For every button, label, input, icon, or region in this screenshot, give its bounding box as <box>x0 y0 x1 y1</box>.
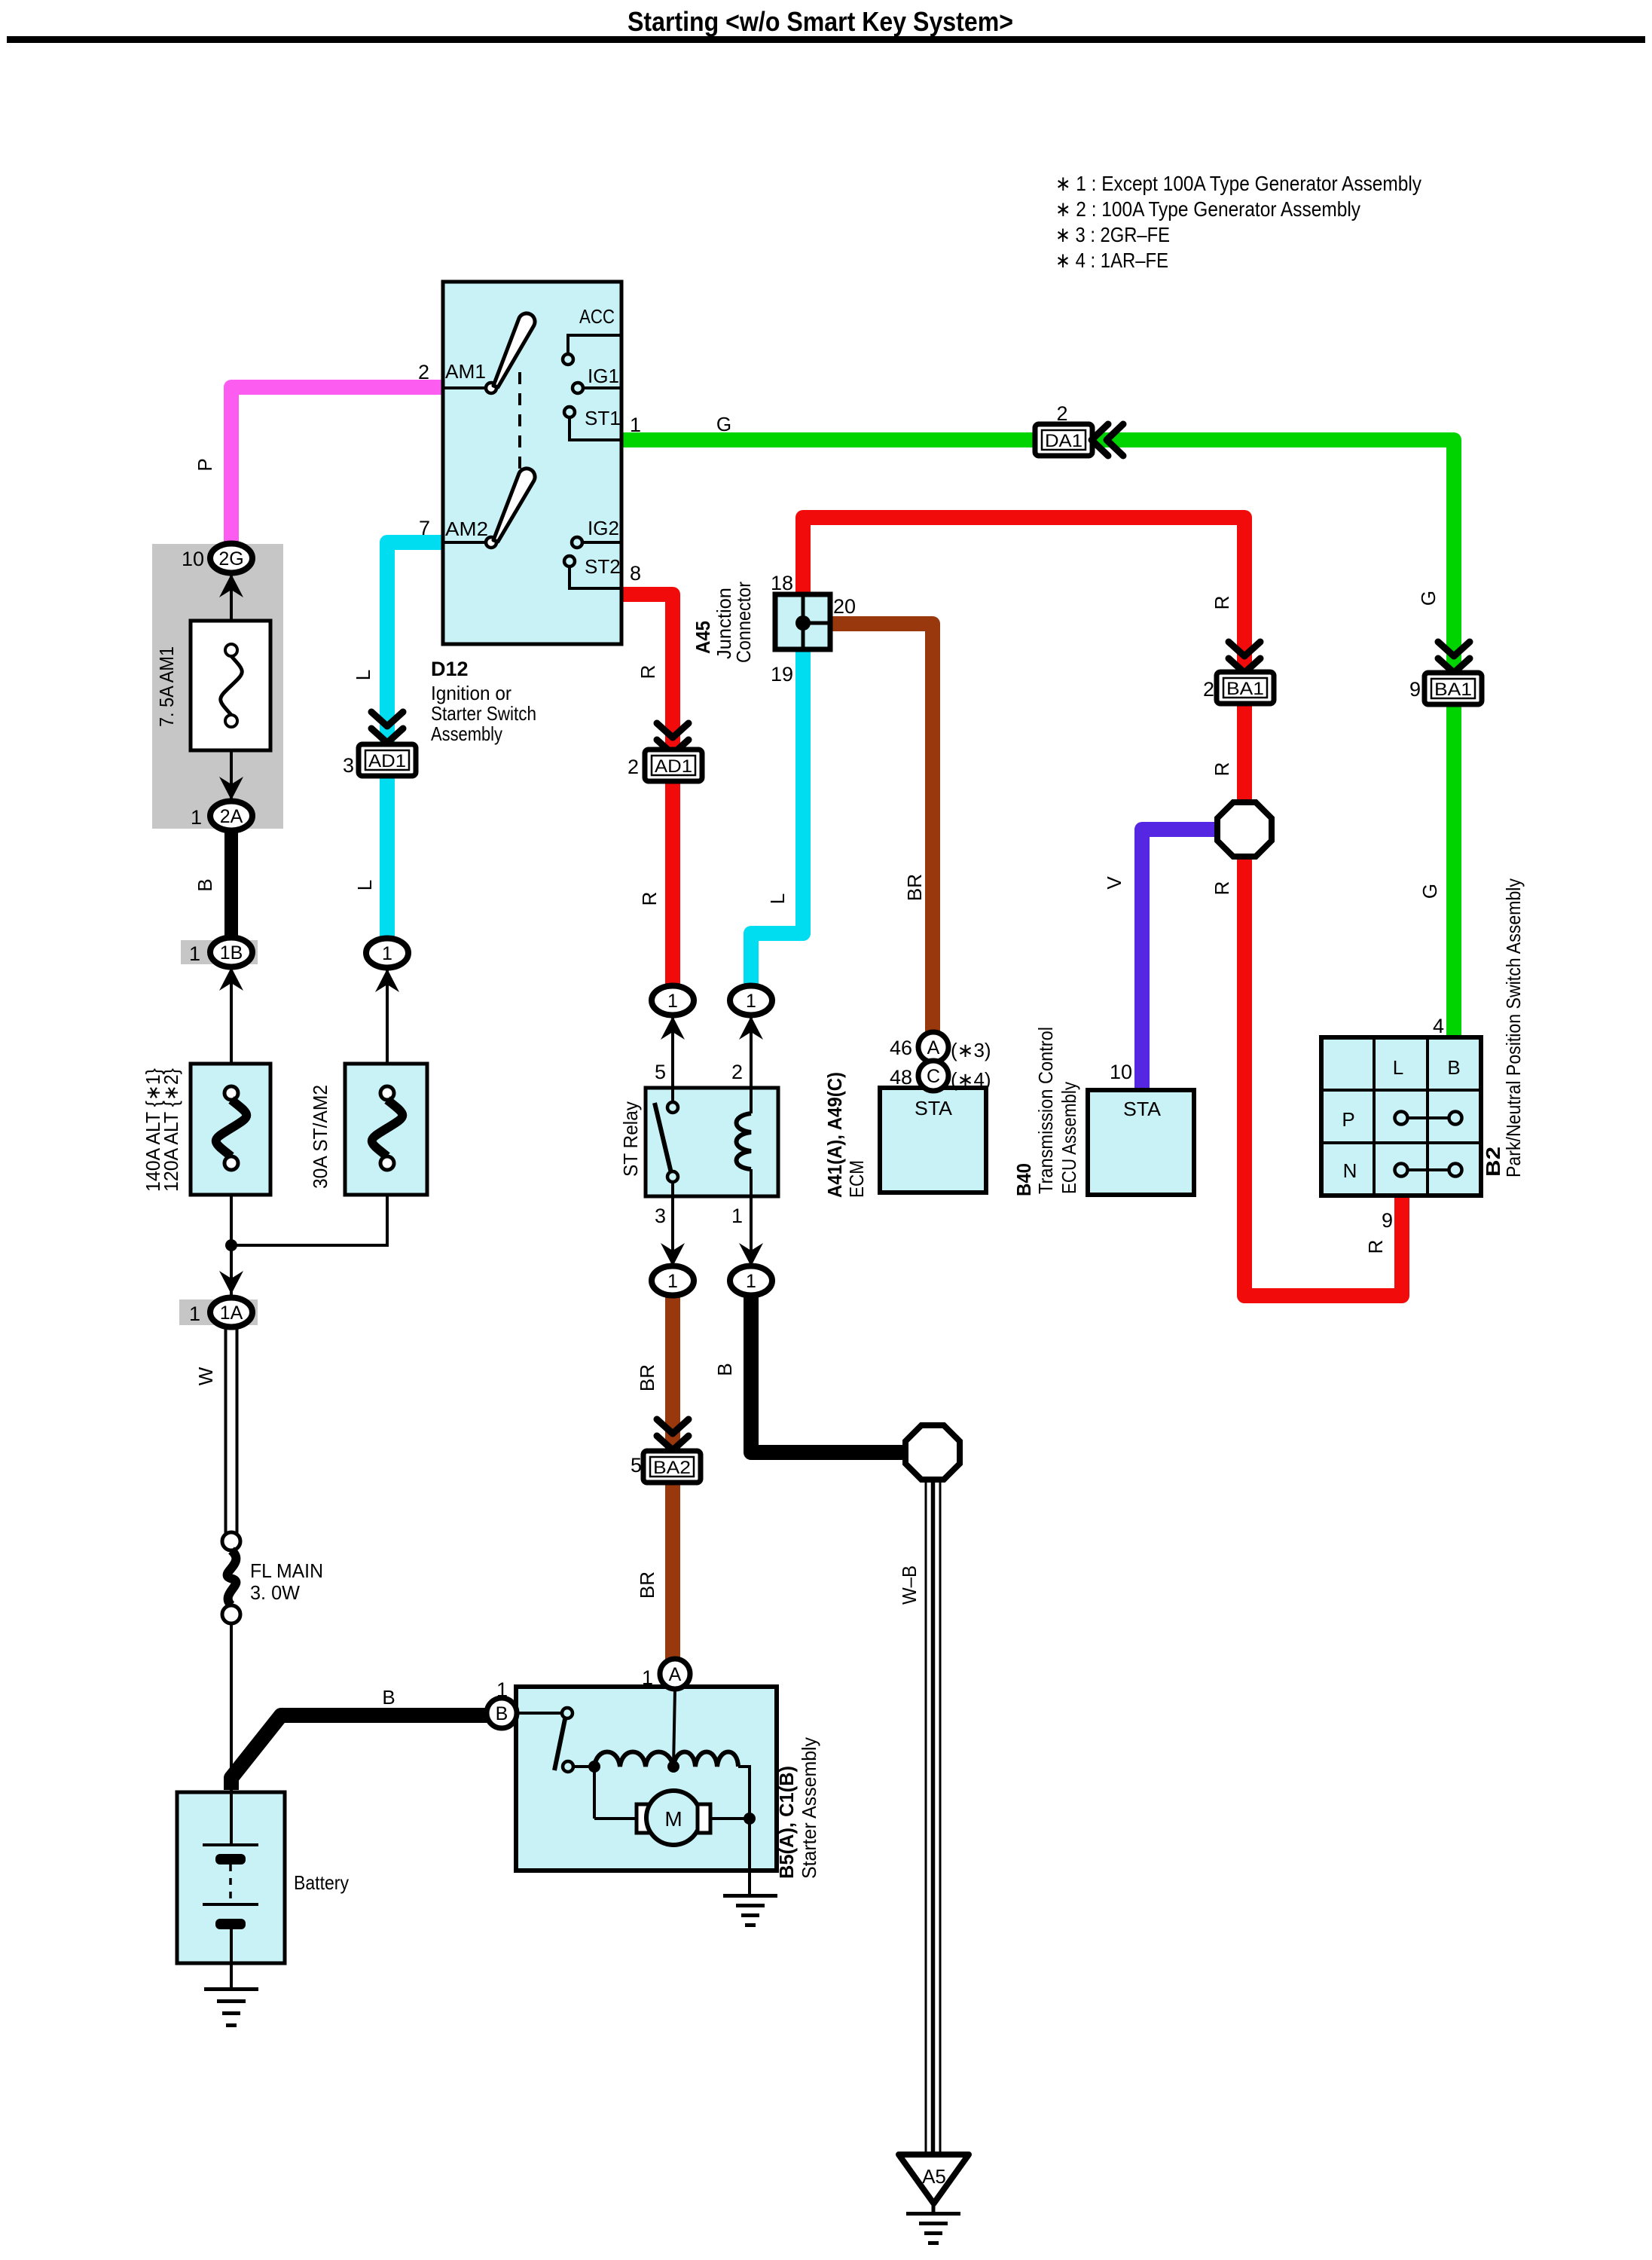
svg-text:18: 18 <box>771 572 793 594</box>
octagon splice lower <box>905 1425 960 1480</box>
connector AD1 pin2 <box>628 750 702 781</box>
D12 terminal labels <box>445 305 621 578</box>
svg-text:46: 46 <box>890 1037 912 1059</box>
svg-text:ST2: ST2 <box>585 555 621 578</box>
label FL MAIN 3.0W <box>250 1559 323 1604</box>
ST relay internals <box>655 1088 751 1196</box>
svg-text:2A: 2A <box>220 806 243 827</box>
fuse 140A ALT element <box>216 1086 247 1170</box>
connector AD1 pin3 <box>343 744 416 777</box>
label Battery <box>294 1871 349 1894</box>
wire BR brown A45 pin20 to ECM STA <box>830 624 933 1034</box>
svg-text:B40: B40 <box>1012 1163 1035 1196</box>
wire label W-B <box>898 1565 921 1605</box>
connector oval 1 black <box>730 1266 772 1296</box>
B2 pin numbers <box>1382 1015 1444 1232</box>
svg-text:Park/Neutral Position Switch A: Park/Neutral Position Switch Assembly <box>1502 878 1525 1177</box>
connector DA1 <box>1035 402 1123 456</box>
A45 pin numbers <box>771 572 856 686</box>
svg-text:1: 1 <box>191 806 202 829</box>
junction connector A45 box <box>775 594 830 649</box>
svg-text:9: 9 <box>1409 678 1421 701</box>
gray highlight panel around 7.5A AM1 fuse <box>152 544 283 829</box>
wire label G horizontal <box>716 413 731 435</box>
svg-text:AD1: AD1 <box>655 756 692 777</box>
starter assembly internals with motor M <box>517 1689 756 1894</box>
label 30A ST/AM2 <box>309 1085 331 1189</box>
wire label BR upper <box>636 1364 658 1391</box>
svg-text:∗ 3 : 2GR–FE: ∗ 3 : 2GR–FE <box>1055 223 1170 246</box>
connector oval 1B <box>189 938 252 967</box>
svg-text:10: 10 <box>182 548 204 570</box>
svg-text:1: 1 <box>642 1666 653 1689</box>
svg-text:Ignition or: Ignition or <box>431 682 511 704</box>
D12 pin numbers <box>418 361 641 585</box>
svg-text:IG2: IG2 <box>588 517 619 539</box>
svg-text:BA1: BA1 <box>1434 680 1472 700</box>
svg-text:7. 5A AM1: 7. 5A AM1 <box>155 646 178 727</box>
wire V violet octagon to B40 STA <box>1142 829 1216 1090</box>
svg-text:A41(A), A49(C): A41(A), A49(C) <box>823 1072 846 1198</box>
svg-text:48: 48 <box>890 1066 912 1089</box>
svg-text:1: 1 <box>630 414 641 436</box>
wire label V <box>1103 876 1125 890</box>
ECM pin circles A C <box>918 1032 948 1091</box>
svg-text:1A: 1A <box>220 1303 243 1324</box>
link FL MAIN to battery <box>230 1624 233 1792</box>
svg-text:L: L <box>352 670 374 680</box>
svg-text:1: 1 <box>382 943 392 964</box>
svg-text:2: 2 <box>1056 402 1067 425</box>
svg-text:BR: BR <box>903 874 926 901</box>
wire label BR ecm <box>903 874 926 901</box>
svg-text:2: 2 <box>628 756 639 778</box>
connector oval 2G <box>182 544 252 573</box>
svg-text:R: R <box>1211 596 1233 610</box>
fuse 7.5A AM1 box <box>191 621 270 750</box>
svg-text:W: W <box>194 1367 217 1385</box>
svg-text:R: R <box>637 665 659 680</box>
title Starting w/o Smart Key System <box>628 6 1013 37</box>
ignition switch D12 internals <box>443 313 621 588</box>
svg-text:BR: BR <box>636 1364 658 1391</box>
svg-text:P: P <box>194 458 216 471</box>
arrow into 2G <box>219 574 243 597</box>
connector oval 1 cyan branch <box>366 939 408 993</box>
starter assembly box <box>516 1687 777 1871</box>
ST relay box <box>646 1088 778 1196</box>
svg-text:B: B <box>382 1686 395 1709</box>
link fuse 30A ST/AM2 branch to junction <box>231 1168 387 1245</box>
label A45 Junction Connector <box>692 582 755 663</box>
ECM STA terminal <box>915 1097 953 1119</box>
wire B black 2A to 1B <box>224 827 238 942</box>
svg-text:ST Relay: ST Relay <box>619 1101 642 1177</box>
svg-text:R: R <box>638 892 661 906</box>
svg-text:BR: BR <box>636 1571 658 1599</box>
gray highlight behind connector 1A <box>179 1299 258 1325</box>
connector oval 1 cyan <box>730 986 772 1040</box>
svg-text:ECM: ECM <box>845 1160 868 1198</box>
svg-text:1: 1 <box>189 1303 200 1325</box>
label 7.5A AM1 <box>155 646 178 727</box>
arrow into 1A <box>219 1271 243 1294</box>
svg-text:8: 8 <box>630 562 641 585</box>
svg-text:1: 1 <box>731 1205 743 1227</box>
svg-text:B: B <box>496 1703 508 1724</box>
link fuse 140A ALT to junction to 1A oval <box>230 1168 233 1298</box>
svg-text:30A ST/AM2: 30A ST/AM2 <box>309 1085 331 1189</box>
svg-text:ACC: ACC <box>579 305 615 328</box>
svg-text:B: B <box>713 1363 736 1376</box>
svg-text:1: 1 <box>496 1678 508 1701</box>
link connector1 cyan to fuse 30A ST/AM2 <box>386 967 389 1088</box>
wire label L A45 <box>766 893 789 904</box>
svg-text:1: 1 <box>189 942 200 965</box>
svg-text:5: 5 <box>631 1454 642 1477</box>
svg-text:9: 9 <box>1382 1209 1393 1232</box>
fuse 30A ST/AM2 element <box>372 1086 403 1170</box>
svg-text:AD1: AD1 <box>368 751 406 771</box>
label D12 Ignition or Starter Switch Assembly <box>431 658 536 745</box>
arrow into 1B <box>219 967 243 991</box>
connector oval 1A <box>189 1298 252 1327</box>
wire label L upper <box>352 670 374 680</box>
svg-text:STA: STA <box>1123 1098 1162 1120</box>
ground point A5 triangle <box>899 2155 969 2203</box>
fuse 30A ST/AM2 box <box>345 1064 427 1195</box>
wire B black thick battery to starter B <box>231 1715 488 1790</box>
svg-text:N: N <box>1343 1159 1357 1182</box>
svg-text:BA2: BA2 <box>653 1458 691 1478</box>
wire label L lower <box>353 880 376 890</box>
svg-text:∗ 1 : Except 100A Type Generat: ∗ 1 : Except 100A Type Generator Assembl… <box>1055 172 1421 195</box>
svg-text:M: M <box>664 1807 682 1831</box>
svg-text:L: L <box>1393 1056 1403 1079</box>
svg-text:ECU Assembly: ECU Assembly <box>1058 1082 1080 1194</box>
svg-text:A45: A45 <box>692 621 714 654</box>
wire G green ST1 to DA1 to BA1 to B2 pin4 <box>621 440 1454 1037</box>
svg-text:Battery: Battery <box>294 1871 349 1894</box>
wire label R upper <box>637 665 659 680</box>
motor label M <box>664 1807 682 1831</box>
svg-text:G: G <box>1417 591 1440 606</box>
wire label P <box>194 458 216 471</box>
svg-text:R: R <box>1211 881 1233 896</box>
svg-text:DA1: DA1 <box>1045 431 1083 451</box>
svg-text:1B: 1B <box>220 942 243 964</box>
svg-text:AM1: AM1 <box>445 360 486 383</box>
wire R red A45 pin18 to BA1 to octagon to B2 pin9 <box>803 518 1402 1296</box>
svg-text:Connector: Connector <box>732 582 755 663</box>
wire P pink AM1 to 2G <box>231 387 443 543</box>
gray highlight behind connector 1B <box>181 940 258 964</box>
svg-text:Transmission Control: Transmission Control <box>1034 1027 1057 1194</box>
label 140A ALT <box>142 1068 182 1192</box>
battery internals <box>203 1792 258 1987</box>
svg-text:1: 1 <box>746 991 756 1012</box>
chevron into BA2 <box>657 1419 689 1450</box>
starter pin numbers <box>496 1666 653 1701</box>
svg-text:∗ 2 : 100A Type Generator Asse: ∗ 2 : 100A Type Generator Assembly <box>1055 197 1360 221</box>
svg-text:FL MAIN: FL MAIN <box>250 1559 323 1582</box>
svg-text:3. 0W: 3. 0W <box>250 1581 300 1604</box>
B2 cell labels <box>1342 1056 1460 1182</box>
wire R red ST2 to AD1 to connector 1 <box>621 594 673 988</box>
ground battery <box>204 1987 258 2027</box>
svg-text:5: 5 <box>655 1061 666 1083</box>
link 1B oval to fuse 140A ALT <box>230 967 233 1088</box>
svg-text:3: 3 <box>655 1205 666 1227</box>
svg-text:BA1: BA1 <box>1226 679 1264 699</box>
wire label B relay <box>713 1363 736 1376</box>
svg-text:V: V <box>1103 876 1125 890</box>
svg-text:B: B <box>1447 1056 1460 1079</box>
chevron into AD1 pin3 <box>371 712 403 743</box>
arrow into oval relay pin3 <box>661 1243 685 1266</box>
connector oval 1 brown <box>652 1266 694 1296</box>
svg-text:A: A <box>669 1664 682 1685</box>
connector BA1 pin9 <box>1409 673 1482 704</box>
svg-text:120A ALT {∗2}: 120A ALT {∗2} <box>160 1068 182 1192</box>
chevron into BA1 pin2 <box>1229 642 1260 673</box>
park/neutral position switch B2 box <box>1321 1037 1481 1196</box>
svg-text:L: L <box>353 880 376 890</box>
wire L cyan AM2 to AD1 to connector 1 <box>387 542 443 940</box>
link connector1 to relay pin5 <box>671 1015 674 1088</box>
svg-text:ST1: ST1 <box>585 407 621 429</box>
octagon splice right <box>1217 802 1272 857</box>
wire L cyan A45 pin19 to connector 1 <box>751 646 803 988</box>
svg-text:C: C <box>927 1066 940 1087</box>
label B2 Park/Neutral Position Switch Assembly <box>1482 878 1525 1177</box>
label B40 Transmission Control ECU Assembly <box>1012 1027 1080 1196</box>
ECM pin numbers <box>890 1037 991 1091</box>
ignition switch D12 box <box>443 282 621 644</box>
svg-text:B: B <box>194 878 216 891</box>
chevron into BA1 pin9 <box>1438 642 1470 673</box>
wire label R mid <box>638 892 661 906</box>
wire label R bottom <box>1364 1240 1387 1254</box>
svg-text:3: 3 <box>343 754 354 777</box>
label ST Relay <box>619 1101 642 1177</box>
relay pin numbers bottom <box>655 1205 743 1227</box>
svg-text:AM2: AM2 <box>445 518 488 540</box>
svg-text:∗ 4 : 1AR–FE: ∗ 4 : 1AR–FE <box>1055 249 1168 272</box>
link relay pin1 to connector1 <box>750 1196 753 1267</box>
connector oval 1 red <box>652 986 694 1040</box>
svg-text:A5: A5 <box>922 2165 946 2188</box>
wire W white 1A to FL MAIN <box>226 1326 237 1533</box>
fuse 7.5A AM1 element <box>221 644 243 727</box>
svg-text:W–B: W–B <box>898 1565 921 1605</box>
ground A5 bars <box>906 2203 960 2245</box>
wire B black relay pin1 to octagon <box>751 1294 905 1452</box>
svg-text:STA: STA <box>915 1097 953 1119</box>
svg-text:1: 1 <box>667 1271 678 1292</box>
svg-text:IG1: IG1 <box>588 365 619 387</box>
connector BA1 pin2 <box>1203 672 1274 704</box>
wire label W <box>194 1367 217 1385</box>
battery box <box>177 1792 285 1963</box>
svg-text:(∗3): (∗3) <box>951 1039 991 1061</box>
link 2G oval to fuse 7.5A AM1 <box>230 573 233 646</box>
wire label B battery cable <box>382 1686 395 1709</box>
svg-text:Starter Switch: Starter Switch <box>431 702 536 725</box>
svg-text:10: 10 <box>1110 1061 1132 1083</box>
fusible link FL MAIN <box>222 1532 240 1623</box>
wire BR brown relay pin3 to BA2 to starter A <box>665 1294 680 1660</box>
arrow into 2A <box>219 777 243 800</box>
link connector1 to relay pin2 <box>750 1015 753 1088</box>
label A41 A49 ECM <box>823 1072 868 1198</box>
svg-text:R: R <box>1364 1240 1387 1254</box>
connector oval 2A <box>191 802 252 831</box>
arrow into oval relay pin1 <box>739 1243 763 1266</box>
starter pin circles <box>487 1659 690 1728</box>
wire labels G column <box>1417 591 1441 899</box>
link fuse 7.5A AM1 to 2A oval <box>230 725 233 802</box>
wire label B <box>194 878 216 891</box>
svg-text:B2: B2 <box>1482 1147 1504 1177</box>
svg-text:1: 1 <box>746 1271 756 1292</box>
label B5 C1 Starter Assembly <box>775 1737 820 1879</box>
link relay pin3 to connector1 <box>671 1196 674 1267</box>
svg-text:L: L <box>766 893 789 904</box>
svg-text:Starter Assembly: Starter Assembly <box>798 1737 820 1879</box>
svg-text:P: P <box>1342 1108 1354 1131</box>
svg-text:Starting <w/o Smart Key System: Starting <w/o Smart Key System> <box>628 6 1013 37</box>
ground starter <box>723 1894 777 1927</box>
svg-text:2: 2 <box>1203 678 1214 701</box>
svg-text:G: G <box>1418 884 1441 899</box>
svg-text:4: 4 <box>1433 1015 1444 1037</box>
svg-text:1: 1 <box>667 991 678 1012</box>
chevron into AD1 pin2 <box>657 723 689 754</box>
svg-text:2: 2 <box>731 1061 743 1083</box>
svg-text:B5(A), C1(B): B5(A), C1(B) <box>775 1766 798 1879</box>
junction dot fuse outputs <box>225 1239 237 1251</box>
svg-text:(∗4): (∗4) <box>951 1068 991 1091</box>
svg-text:19: 19 <box>771 663 793 686</box>
svg-text:G: G <box>716 413 731 435</box>
svg-text:20: 20 <box>833 595 856 618</box>
wire W-B white-black octagon to ground A5 <box>926 1480 940 2156</box>
svg-text:2G: 2G <box>218 548 243 570</box>
ECM box <box>880 1088 986 1193</box>
B40 pin number <box>1110 1061 1132 1083</box>
B40 STA terminal <box>1123 1098 1162 1120</box>
wire labels R column <box>1211 596 1233 896</box>
svg-text:Assembly: Assembly <box>431 722 502 745</box>
svg-text:7: 7 <box>419 517 430 539</box>
title underline <box>7 36 1645 43</box>
svg-text:D12: D12 <box>431 658 469 680</box>
svg-text:A: A <box>927 1037 940 1058</box>
connector BA2 <box>631 1451 701 1483</box>
legend notes <box>1055 172 1421 272</box>
B40 box <box>1088 1090 1194 1195</box>
relay pin numbers top <box>655 1061 743 1083</box>
wire label BR lower <box>636 1571 658 1599</box>
fuse 140A ALT box <box>191 1064 270 1195</box>
svg-text:2: 2 <box>418 361 429 383</box>
svg-text:R: R <box>1211 762 1233 777</box>
